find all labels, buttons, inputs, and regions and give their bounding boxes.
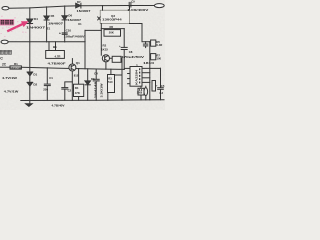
wire Q1 emitter [71, 71, 73, 100]
wire Q2 collector elbow [110, 58, 123, 100]
zener D2 [27, 82, 32, 86]
resistor R11 box [152, 81, 156, 92]
diode D6 [62, 16, 67, 20]
resistor R7 box [151, 54, 156, 60]
resistor R5 box [151, 40, 156, 46]
zener D1 [27, 72, 32, 76]
labels [2, 0, 165, 107]
transistor Q1 [69, 64, 76, 71]
wire D6 branch [64, 6, 66, 42]
resistor R4 box [78, 69, 80, 85]
capacitor C9 [129, 2, 131, 7]
IC U1 box [130, 67, 142, 87]
wire Q2 emitter [105, 62, 107, 69]
wire base drop to Q2 [100, 24, 102, 56]
lamp LED1 [145, 86, 147, 87]
resistor R3 box [110, 69, 112, 74]
wire Q1 collector up [71, 59, 73, 64]
capacitor C1 [46, 68, 48, 84]
wire top rail [9, 6, 154, 9]
transistor Q3 box [100, 10, 129, 23]
capacitor C4 [95, 69, 97, 79]
transistor Q2 [102, 55, 109, 62]
terminal input mid-left [1, 40, 8, 44]
annotation primary-coil text [0, 50, 11, 54]
wire R3 top link [115, 74, 123, 76]
wire C8 branch [123, 29, 125, 48]
resistor R9 box [112, 56, 121, 62]
scan noise texture [0, 0, 1, 1]
transistor Q3 junction cross [98, 17, 101, 20]
terminal input top-left [2, 7, 9, 10]
IC U1 pins [142, 67, 161, 69]
terminal output top-right [154, 4, 164, 8]
capacitor C8 [121, 47, 127, 49]
wire mid rail [0, 66, 10, 68]
wire second rail [8, 41, 85, 43]
capacitor C5 [160, 68, 162, 87]
wire left bus [29, 8, 31, 104]
resistor R1 box [10, 66, 21, 69]
diode D7 [76, 3, 81, 8]
capacitor C7 [143, 42, 147, 48]
ground [26, 104, 33, 107]
wire D5 branch [46, 7, 48, 42]
wire snubber bridge [130, 24, 150, 42]
wire feed drop [84, 30, 86, 68]
resistor R8 box [140, 86, 142, 88]
IC U1 inner pin column [139, 68, 140, 83]
wire Q3 collector drop [102, 6, 104, 11]
wire right bus [149, 42, 151, 100]
diode D5 [44, 16, 49, 20]
resistor R6 box [104, 30, 121, 37]
wire C9 drop stub [129, 6, 131, 11]
capacitor C2 [65, 82, 73, 88]
annotation highlight new-coil [0, 19, 14, 25]
junction dots [29, 5, 161, 101]
wire Q3 emitter link [101, 28, 124, 30]
annotation arrow [7, 21, 29, 32]
capacitor C10 [62, 33, 67, 34]
diode D3 [87, 69, 89, 81]
diode D4 [27, 19, 33, 24]
transformer B1 leads [48, 42, 50, 51]
wire bottom rail [21, 99, 164, 102]
transformer B1 box [46, 51, 65, 59]
